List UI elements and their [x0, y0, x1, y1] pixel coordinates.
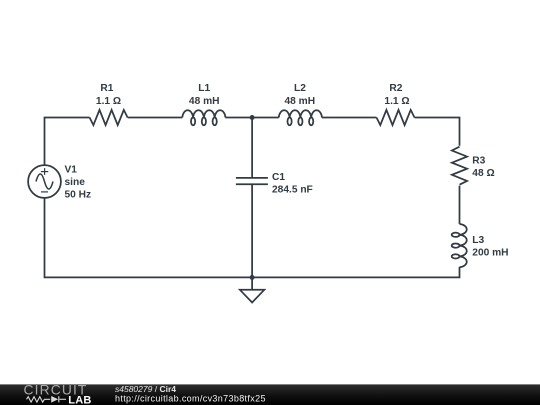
svg-text:http://circuitlab.com/cv3n73b8: http://circuitlab.com/cv3n73b8tfx25: [115, 394, 266, 404]
svg-text:L1: L1: [198, 83, 210, 94]
svg-text:L3: L3: [472, 235, 484, 246]
svg-text:48 mH: 48 mH: [189, 96, 220, 107]
svg-text:1.1 Ω: 1.1 Ω: [384, 96, 409, 107]
svg-text:L2: L2: [294, 83, 306, 94]
svg-text:48 mH: 48 mH: [285, 96, 316, 107]
svg-text:R2: R2: [389, 83, 402, 94]
svg-text:50 Hz: 50 Hz: [65, 190, 92, 201]
svg-text:sine: sine: [65, 177, 86, 188]
svg-text:200 mH: 200 mH: [472, 248, 508, 259]
svg-text:LAB: LAB: [68, 394, 91, 405]
svg-text:R1: R1: [100, 83, 113, 94]
svg-text:284.5 nF: 284.5 nF: [272, 185, 313, 196]
svg-text:R3: R3: [472, 155, 485, 166]
svg-text:1.1 Ω: 1.1 Ω: [96, 96, 121, 107]
svg-text:V1: V1: [65, 165, 78, 176]
svg-text:48 Ω: 48 Ω: [472, 168, 494, 179]
svg-text:s4580279 / Cir4: s4580279 / Cir4: [115, 384, 176, 394]
svg-text:C1: C1: [272, 172, 285, 183]
